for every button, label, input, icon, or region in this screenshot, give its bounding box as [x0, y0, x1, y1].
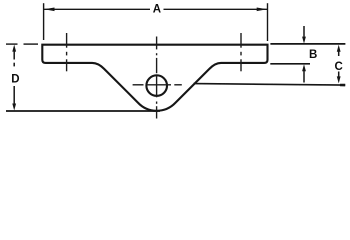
hole (circle): [146, 75, 167, 96]
dim D bottom arrow: [13, 86, 15, 105]
dim C bottom arrow: [338, 72, 340, 79]
dim C top arrow: [338, 50, 340, 56]
dim D top dashed reference line: [6, 43, 18, 45]
svg-text:A: A: [153, 3, 161, 15]
dim D top arrow: [13, 50, 15, 60]
svg-text:C: C: [334, 61, 342, 73]
centerline hole horizontal (y=84.8): [133, 84, 182, 86]
centerline middle vertical (x=156.6): [156, 37, 158, 119]
centerline bar-left (x=66.6): [66, 33, 68, 71]
dim B/C top extension line: [270, 43, 345, 45]
svg-text:D: D: [11, 74, 19, 86]
right surface line end tick: [340, 84, 345, 87]
dim A arrow left: [44, 8, 54, 12]
svg-text:B: B: [309, 49, 317, 61]
dim A extension line left: [43, 3, 45, 40]
dim A extension line right: [267, 3, 269, 41]
right surface line: [194, 84, 346, 86]
bracket outline (top bar with V-shaped dip): [42, 45, 267, 111]
dim A arrow right: [257, 8, 267, 12]
dim B bottom extension line: [270, 63, 310, 65]
bottom surface line: [6, 110, 160, 112]
dim B top arrow: [303, 26, 305, 39]
dim A line: [44, 8, 150, 10]
dim B bottom arrow: [303, 70, 305, 83]
centerline bar-right (x=241): [240, 33, 242, 71]
